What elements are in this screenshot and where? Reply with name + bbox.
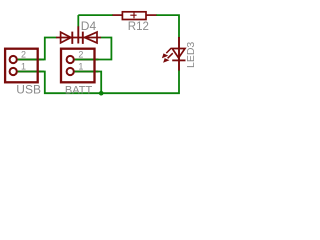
BATT pin 2 circle	[67, 56, 74, 63]
junction dot	[99, 91, 104, 96]
wire USB pin1 down along ground rail to LED3 cathode	[18, 70, 180, 93]
wire USB pin2 to D4 left anode	[18, 38, 57, 60]
LED3 pin line	[178, 37, 180, 71]
wire USB pin2 overlay	[18, 59, 45, 61]
wire top rail to R12 left	[78, 14, 113, 16]
svg-text:1: 1	[21, 62, 26, 72]
BATT pin 2 line	[73, 59, 98, 61]
USB pin 2 line	[16, 59, 41, 61]
LED3 emission arrow 1	[166, 48, 171, 53]
BATT pin 1 circle	[67, 68, 74, 75]
svg-text:D4: D4	[81, 19, 97, 33]
D4 right diode triangle	[85, 32, 97, 43]
svg-text:2: 2	[21, 50, 26, 60]
wire BATT pin2 overlay	[75, 59, 99, 61]
connector BATT	[61, 49, 95, 83]
LED3 triangle	[172, 49, 185, 58]
wire D4 common cathode riser to top rail	[77, 15, 79, 26]
LED3 cathode bar	[172, 59, 185, 61]
svg-text:BATT: BATT	[65, 85, 93, 97]
resistor R12	[113, 12, 157, 20]
LED3 emission arrow 2	[168, 53, 173, 58]
wire USB pin1 overlay	[18, 71, 45, 73]
diode D4 (dual, common cathode)	[56, 26, 101, 44]
R12 left pin	[113, 14, 123, 16]
R12 body box	[122, 12, 146, 20]
svg-text:1: 1	[78, 62, 83, 72]
D4 left cathode bar	[71, 32, 73, 44]
D4 right cathode bar	[82, 32, 84, 44]
BATT pin 1 line	[73, 71, 98, 73]
wire R12 right to LED3 anode	[156, 15, 179, 38]
D4 left diode triangle	[61, 32, 71, 43]
wire BATT pin1 down to ground rail	[76, 72, 102, 94]
svg-text:USB: USB	[16, 83, 41, 97]
USB pin 2 circle	[10, 56, 17, 63]
D4 pin line through	[56, 37, 101, 39]
D4 center junction pin	[77, 26, 79, 43]
R12 plus mark	[130, 14, 136, 16]
svg-text:2: 2	[78, 50, 83, 60]
BATT box	[61, 49, 95, 83]
connector USB	[5, 49, 38, 83]
wire BATT pin1 overlay	[75, 71, 99, 73]
LED LED3	[162, 37, 186, 71]
svg-text:LED3: LED3	[185, 42, 197, 68]
R12 right pin	[146, 14, 156, 16]
USB pin 1 circle	[10, 68, 17, 75]
svg-text:R12: R12	[128, 21, 149, 33]
USB pin 1 line	[16, 71, 41, 73]
USB box	[5, 49, 38, 83]
wire D4 right anode to BATT pin2	[76, 38, 112, 60]
